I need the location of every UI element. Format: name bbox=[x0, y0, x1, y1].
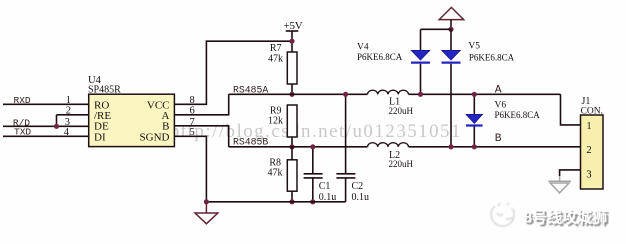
capacitor C2 top wire from A bbox=[345, 94, 347, 173]
svg-text:P6KE6.8CA: P6KE6.8CA bbox=[357, 52, 403, 62]
resistor R8 body bbox=[287, 160, 297, 191]
junction C1/gnd rail bbox=[310, 199, 315, 204]
svg-text:1: 1 bbox=[586, 121, 591, 132]
wire RS485B line right bbox=[409, 146, 581, 148]
wire pin2 /RE bbox=[57, 114, 89, 116]
svg-text:RXD: RXD bbox=[14, 95, 31, 106]
wire pin7 B to RS485B bbox=[174, 126, 228, 147]
capacitor C1 plates bbox=[304, 173, 323, 175]
wire pin5 SGND down bbox=[174, 136, 206, 202]
svg-text:V5: V5 bbox=[468, 41, 480, 51]
svg-text:RS485B: RS485B bbox=[233, 137, 268, 148]
junction V4/A bbox=[418, 92, 423, 97]
logo icon bbox=[491, 203, 514, 226]
ground symbol signal bbox=[205, 202, 207, 213]
svg-text:47k: 47k bbox=[268, 54, 283, 65]
wire R8 stubs bbox=[291, 147, 293, 160]
svg-text:+5V: +5V bbox=[284, 20, 303, 32]
wire pin6 A to RS485A bbox=[174, 94, 228, 115]
wire RS485A line right bbox=[409, 93, 561, 95]
wire A jog down to J1 pin1 bbox=[561, 94, 581, 125]
svg-text:220uH: 220uH bbox=[389, 159, 414, 169]
svg-text:SGND: SGND bbox=[140, 131, 170, 143]
svg-text:47k: 47k bbox=[268, 168, 283, 179]
wire J1 pin3 to ground bbox=[560, 170, 581, 176]
junction R9/B bbox=[289, 144, 294, 149]
wire TXD to pin4 bbox=[3, 135, 89, 137]
svg-text:0.1u: 0.1u bbox=[352, 192, 370, 203]
wire +5V stem bbox=[291, 31, 293, 52]
junction V6/A bbox=[472, 92, 477, 97]
earth symbol top bbox=[439, 7, 464, 19]
wire RS485B line left bbox=[229, 146, 368, 148]
svg-text:P6KE6.8CA: P6KE6.8CA bbox=[495, 110, 541, 120]
wire earth to V4 bbox=[421, 28, 452, 30]
svg-text:J1: J1 bbox=[582, 96, 591, 107]
connector J1 body bbox=[581, 115, 604, 189]
svg-text:TXD: TXD bbox=[14, 127, 31, 138]
svg-text:2: 2 bbox=[586, 145, 591, 156]
wire R9 to B line bbox=[291, 137, 293, 147]
junction C1/B bbox=[310, 144, 315, 149]
svg-text:B: B bbox=[495, 133, 502, 145]
wire RXD to pin1 bbox=[3, 103, 89, 105]
svg-text:1: 1 bbox=[66, 95, 71, 106]
diode V4 triangle bbox=[411, 50, 430, 60]
diode V5 wires bbox=[450, 29, 452, 50]
svg-text:DI: DI bbox=[94, 131, 106, 143]
diode V5 triangle bbox=[442, 50, 461, 60]
IC U4 SP485R body bbox=[89, 94, 175, 146]
diode V6 wires bbox=[473, 94, 475, 114]
svg-text:4: 4 bbox=[64, 127, 70, 138]
diode V4 wires bbox=[420, 29, 422, 50]
wire ground rail bbox=[206, 201, 345, 203]
svg-text:P6KE6.8CA: P6KE6.8CA bbox=[469, 53, 515, 63]
svg-text:C1: C1 bbox=[319, 181, 331, 192]
svg-text:A: A bbox=[495, 85, 502, 97]
svg-text:CON.: CON. bbox=[581, 107, 603, 117]
capacitor C1 bottom wire bbox=[312, 178, 314, 202]
resistor R9 body bbox=[287, 105, 297, 137]
diode V6 cathode bar bbox=[466, 124, 483, 126]
junction SGND rail bbox=[204, 199, 209, 204]
svg-text:C2: C2 bbox=[352, 181, 364, 192]
wire R/D to pin3 bbox=[3, 125, 89, 127]
junction R7/A bbox=[289, 92, 294, 97]
svg-text:http://blog.csdn.net/u01235105: http://blog.csdn.net/u012351051 bbox=[170, 121, 462, 142]
svg-text:SP485R: SP485R bbox=[88, 85, 121, 96]
wire junction vertical pin2-pin3 bbox=[56, 115, 58, 127]
wire R7 to A line bbox=[291, 84, 293, 94]
junction R/D bbox=[54, 124, 59, 129]
svg-text:R7: R7 bbox=[270, 43, 282, 54]
power +5V bar bbox=[286, 30, 299, 32]
diode V5 cathode bar bbox=[442, 61, 461, 63]
capacitor C2 plates bbox=[336, 173, 355, 175]
inductor L1 coil bbox=[368, 90, 409, 94]
diode V6 triangle bbox=[466, 114, 482, 123]
junction R8/gnd rail bbox=[289, 199, 294, 204]
junction earth bbox=[448, 27, 453, 32]
wire RS485A line left bbox=[229, 93, 368, 95]
diode V4 cathode bar bbox=[411, 61, 430, 63]
junction C2/A bbox=[343, 92, 348, 97]
capacitor C2 bottom wire bbox=[345, 178, 347, 202]
capacitor C1 top wire bbox=[312, 147, 314, 174]
ground symbol power (gray) bbox=[548, 176, 571, 193]
svg-text:220uH: 220uH bbox=[389, 106, 414, 116]
svg-text:V4: V4 bbox=[357, 43, 369, 53]
svg-text:12k: 12k bbox=[268, 116, 283, 127]
svg-text:3: 3 bbox=[586, 169, 591, 180]
junction V6/B bbox=[472, 144, 477, 149]
svg-text:2: 2 bbox=[66, 105, 71, 116]
resistor R7 body bbox=[287, 52, 297, 84]
junction V5/B bbox=[448, 144, 453, 149]
inductor L2 coil bbox=[368, 143, 409, 147]
wire pin8 VCC up to +5V bbox=[174, 41, 292, 104]
svg-text:8号线攻城狮: 8号线攻城狮 bbox=[524, 208, 608, 227]
junction VCC/+5V bbox=[289, 39, 294, 44]
